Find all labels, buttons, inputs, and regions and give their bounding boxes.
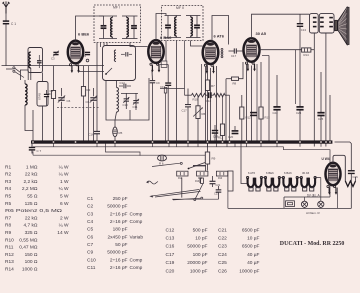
- resistor R1: [51, 91, 55, 99]
- potentiometer R6: [196, 106, 200, 119]
- wire L2 to R5: [115, 112, 117, 120]
- resistor R9: [205, 152, 209, 164]
- wire R13b: [260, 62, 262, 107]
- svg-text:R2: R2: [5, 172, 11, 178]
- wire V2 plate to MF II: [156, 14, 166, 41]
- svg-text:R5: R5: [5, 194, 11, 200]
- MF I primary: [99, 15, 117, 17]
- capacitor C24: [296, 106, 303, 108]
- wire C1 down: [5, 24, 7, 66]
- capacitor C14: [123, 84, 125, 89]
- capacitor C16b: [208, 92, 210, 98]
- resistor R7: [205, 80, 209, 91]
- svg-text:C24: C24: [218, 252, 227, 258]
- svg-text:6 BE6: 6 BE6: [266, 171, 274, 175]
- svg-text:6 BE6: 6 BE6: [78, 32, 90, 37]
- resistor R11: [220, 124, 224, 136]
- svg-text:125 Ω: 125 Ω: [25, 201, 38, 207]
- wire osc frame: [106, 78, 149, 120]
- coil L0: [29, 52, 31, 68]
- capacitor C22: [273, 106, 280, 108]
- svg-text:C19: C19: [166, 260, 175, 266]
- svg-text:2,2 MΩ: 2,2 MΩ: [22, 186, 38, 192]
- svg-text:R6: R6: [202, 112, 206, 116]
- wire R12: [241, 95, 243, 107]
- resistor R3: [81, 87, 85, 97]
- svg-text:2÷16 pF: 2÷16 pF: [110, 265, 128, 271]
- svg-text:R10: R10: [193, 98, 199, 102]
- capacitor C20: [232, 130, 239, 132]
- svg-text:Comp: Comp: [130, 265, 143, 271]
- svg-text:C12: C12: [166, 227, 175, 233]
- capacitor C23: [216, 189, 222, 191]
- resistor R12: [240, 107, 244, 119]
- svg-text:50000 pF: 50000 pF: [107, 204, 127, 210]
- coupling capacitor C18: [233, 48, 235, 53]
- variable capacitor C6a: [58, 97, 64, 99]
- svg-text:C3: C3: [51, 57, 55, 61]
- wire C13: [299, 14, 301, 23]
- svg-text:Comp: Comp: [130, 211, 143, 217]
- svg-text:R 6: R 6: [159, 161, 164, 165]
- svg-text:R1: R1: [5, 164, 11, 170]
- svg-text:6500 pF: 6500 pF: [242, 227, 260, 233]
- svg-text:C11: C11: [87, 265, 96, 271]
- tube V4 30A5: [244, 38, 260, 62]
- resistor R5 oval: [113, 127, 118, 137]
- resistor R11 horizontal: [214, 93, 226, 97]
- svg-text:5 W: 5 W: [60, 194, 69, 200]
- heater 2: [266, 178, 272, 188]
- fuse box: [286, 201, 295, 207]
- svg-text:Comp: Comp: [130, 219, 143, 225]
- svg-text:1 MΩ: 1 MΩ: [26, 164, 38, 170]
- tube V2 6BA6: [148, 40, 163, 63]
- svg-text:MF I: MF I: [113, 6, 120, 10]
- MF II secondary: [186, 15, 201, 17]
- svg-text:55 Ω: 55 Ω: [27, 194, 38, 200]
- svg-text:6 BA6: 6 BA6: [284, 171, 292, 175]
- pot oval: [158, 155, 167, 161]
- svg-text:Comp: Comp: [130, 257, 143, 263]
- wire R3: [83, 66, 85, 87]
- wire box leads: [42, 73, 44, 82]
- branch y152: [106, 144, 141, 156]
- svg-text:50000 pF: 50000 pF: [107, 250, 127, 256]
- svg-text:10 pF: 10 pF: [195, 236, 207, 242]
- tube V3 6AT6: [203, 41, 219, 64]
- capacitor C9: [150, 80, 155, 82]
- svg-text:250 pF: 250 pF: [113, 196, 128, 202]
- svg-text:DUCATI - Mod. RR 2250: DUCATI - Mod. RR 2250: [280, 240, 345, 247]
- wire V2 pins down: [158, 64, 169, 66]
- anode loop V3: [212, 16, 229, 45]
- svg-text:2 W: 2 W: [60, 215, 69, 221]
- svg-text:C21: C21: [218, 227, 227, 233]
- potentiometer R13: [201, 178, 204, 184]
- wire V1 pins down: [78, 71, 104, 73]
- output transformer primary: [310, 14, 319, 33]
- bottom rail: [228, 207, 351, 209]
- wire R6: [197, 95, 199, 106]
- svg-text:R14: R14: [304, 53, 310, 57]
- svg-text:40 µF: 40 µF: [247, 260, 259, 266]
- svg-text:R8: R8: [233, 82, 237, 86]
- svg-text:¼ W: ¼ W: [59, 186, 69, 192]
- svg-text:U W4: U W4: [322, 157, 330, 161]
- svg-text:R5: R5: [119, 131, 123, 135]
- wire boxes down: [181, 178, 183, 198]
- svg-text:50 pF: 50 pF: [115, 242, 127, 248]
- selector box 3: [216, 171, 227, 176]
- rail to R9: [207, 147, 209, 152]
- B+ rail thin: [33, 146, 284, 148]
- wire V5 top: [333, 155, 345, 181]
- variable capacitor C6b: [90, 97, 96, 99]
- transformer windings: [313, 17, 317, 19]
- selector box 4: [228, 171, 233, 191]
- svg-text:1000 pF: 1000 pF: [190, 268, 208, 274]
- svg-text:0,47 MΩ: 0,47 MΩ: [19, 245, 38, 251]
- capacitor C26: [348, 170, 355, 172]
- svg-text:C14: C14: [120, 81, 126, 85]
- svg-text:C13: C13: [301, 28, 307, 32]
- wire C6b: [93, 88, 95, 96]
- output transformer secondary: [319, 14, 334, 33]
- heater links: [261, 177, 265, 179]
- svg-text:R14: R14: [5, 267, 14, 273]
- selector box 1: [177, 171, 188, 176]
- svg-text:6500 pF: 6500 pF: [242, 244, 260, 250]
- svg-text:C7: C7: [87, 242, 93, 248]
- heater 1: [248, 178, 254, 188]
- svg-text:500 pF: 500 pF: [193, 227, 208, 233]
- svg-text:R9: R9: [5, 230, 11, 236]
- svg-text:2÷16 pF: 2÷16 pF: [110, 219, 128, 225]
- wire R14 right: [311, 49, 314, 51]
- contact circles V3: [221, 48, 223, 50]
- wire tone line: [172, 198, 219, 200]
- wire R7: [207, 64, 209, 80]
- svg-text:C6: C6: [67, 99, 71, 103]
- resistor R14: [302, 48, 311, 52]
- wire antenna to C1: [5, 14, 7, 21]
- svg-text:R13: R13: [5, 259, 14, 265]
- svg-text:R12: R12: [5, 252, 14, 258]
- svg-text:6 AT6: 6 AT6: [248, 171, 256, 175]
- svg-text:R7: R7: [5, 215, 11, 221]
- svg-text:C 7: C 7: [37, 149, 42, 153]
- wire bus tail: [335, 142, 352, 171]
- svg-text:C20: C20: [166, 268, 175, 274]
- wire lamp risers: [320, 178, 322, 202]
- capacitor C13: [297, 23, 303, 25]
- capacitor C21: [210, 180, 216, 182]
- svg-text:¼ W: ¼ W: [59, 164, 69, 170]
- wire V1 plate to MF I: [76, 16, 104, 41]
- wire V4 pins: [246, 65, 248, 141]
- switch lever 3: [173, 198, 201, 200]
- svg-text:C4: C4: [87, 219, 93, 225]
- svg-text:C23: C23: [218, 244, 227, 250]
- switch lever: [152, 163, 180, 166]
- svg-text:10000 pF: 10000 pF: [239, 268, 259, 274]
- wire C6a: [61, 88, 63, 96]
- svg-text:C24: C24: [296, 111, 302, 115]
- svg-text:C16: C16: [89, 133, 95, 137]
- svg-text:C17: C17: [166, 252, 175, 258]
- svg-text:R10: R10: [218, 178, 223, 180]
- wire R1: [53, 66, 55, 91]
- svg-text:10 µF: 10 µF: [247, 236, 259, 242]
- upper coil box: [28, 48, 43, 73]
- trimmer C5b: [85, 51, 90, 53]
- wire osc to coil L2: [116, 81, 118, 88]
- antenna: [5, 6, 7, 13]
- pointer arrows: [150, 190, 199, 197]
- coil L1 antenna: [25, 84, 27, 105]
- capacitor C23b: [250, 112, 257, 114]
- svg-text:22 kΩ: 22 kΩ: [25, 172, 38, 178]
- squiggle: [147, 181, 159, 184]
- trimmer C10: [124, 98, 129, 100]
- svg-text:Variab: Variab: [130, 234, 144, 240]
- svg-text:C2: C2: [87, 204, 93, 210]
- svg-text:R3: R3: [5, 179, 11, 185]
- capacitor C17a: [185, 104, 191, 106]
- svg-text:R7: R7: [211, 84, 215, 88]
- trimmer C11: [133, 100, 138, 102]
- svg-text:R4: R4: [5, 186, 11, 192]
- svg-text:180 pF: 180 pF: [113, 227, 128, 233]
- MF II primary: [165, 15, 182, 17]
- wire caps down: [276, 110, 278, 141]
- wire screen v1: [88, 66, 90, 141]
- wire V3 pins: [205, 67, 207, 141]
- bus understubs: [53, 144, 55, 147]
- junction polygon: [20, 70, 28, 80]
- svg-text:R13: R13: [195, 181, 200, 183]
- wire R5 to bus: [114, 137, 116, 141]
- svg-text:1 W: 1 W: [60, 179, 69, 185]
- svg-text:14 W: 14 W: [57, 230, 69, 236]
- wire R9 down: [207, 164, 209, 171]
- svg-text:C17: C17: [182, 109, 188, 113]
- capacitor C19: [212, 130, 218, 132]
- coil L2 oscillator: [117, 88, 119, 113]
- wire L1 to bus: [25, 105, 33, 131]
- resistor R13b: [259, 107, 263, 119]
- svg-text:2÷16 pF: 2÷16 pF: [110, 257, 128, 263]
- svg-text:6 AT6: 6 AT6: [214, 33, 225, 38]
- volume pot line: [33, 154, 205, 156]
- wire AVC y88: [160, 88, 185, 90]
- heater 3: [283, 178, 289, 188]
- svg-text:C6: C6: [87, 234, 93, 240]
- svg-text:C6: C6: [86, 100, 90, 104]
- wire V5 pins down: [328, 188, 330, 194]
- svg-text:R8: R8: [5, 223, 11, 229]
- capacitor C7: [31, 144, 33, 147]
- selector box 2: [197, 171, 208, 176]
- capacitor C1: [3, 20, 9, 22]
- svg-text:C1: C1: [87, 196, 93, 202]
- wire feedback: [260, 49, 302, 51]
- svg-text:6TA8: 6TA8: [38, 93, 42, 100]
- svg-text:C 1: C 1: [11, 22, 16, 26]
- svg-text:2÷16 pF: 2÷16 pF: [110, 211, 128, 217]
- svg-text:40 µF: 40 µF: [247, 252, 259, 258]
- svg-text:R6 Potenz 0,5 MΩ: R6 Potenz 0,5 MΩ: [5, 208, 63, 214]
- svg-text:MF II: MF II: [176, 6, 184, 10]
- svg-text:C16: C16: [206, 99, 212, 103]
- ground bus bar: [31, 140, 332, 143]
- svg-text:R10: R10: [5, 237, 14, 243]
- svg-text:C9: C9: [87, 250, 93, 256]
- switch lever 2: [189, 163, 206, 169]
- capacitor C15: [165, 82, 171, 84]
- svg-text:30 A5: 30 A5: [302, 171, 310, 175]
- pilot lamp rail: [284, 196, 330, 198]
- svg-text:325 Ω: 325 Ω: [25, 230, 38, 236]
- MF I secondary: [122, 15, 138, 17]
- svg-text:C17: C17: [231, 54, 237, 58]
- capacitor C16a: [94, 130, 100, 132]
- svg-text:C22: C22: [273, 111, 279, 115]
- IF transformer MF I box: [94, 5, 141, 43]
- wire switch leads: [6, 68, 13, 70]
- resistor R10 horizontal: [192, 93, 206, 97]
- svg-text:2x450 pF: 2x450 pF: [107, 234, 127, 240]
- svg-text:150 Ω: 150 Ω: [25, 252, 38, 258]
- IF transformer MF II box: [162, 6, 204, 41]
- svg-text:20000 pF: 20000 pF: [187, 260, 207, 266]
- svg-text:C13: C13: [166, 236, 175, 242]
- pilot lamp 1: [301, 201, 307, 207]
- rectifier tube V5: [326, 163, 341, 185]
- wire AVC rail: [2, 65, 105, 67]
- svg-text:C26: C26: [218, 268, 227, 274]
- svg-text:100 pF: 100 pF: [193, 252, 208, 258]
- svg-text:50000 pF: 50000 pF: [187, 244, 207, 250]
- wire C10: [125, 93, 127, 99]
- svg-text:C20: C20: [228, 135, 234, 139]
- svg-text:C11: C11: [133, 105, 138, 109]
- wires MF I down: [96, 43, 98, 132]
- svg-text:C3: C3: [87, 211, 93, 217]
- svg-text:C10: C10: [87, 257, 96, 263]
- svg-text:C25: C25: [318, 117, 324, 121]
- svg-text:R5: R5: [5, 201, 11, 207]
- wire C11: [135, 93, 137, 101]
- wire R11: [222, 136, 224, 141]
- svg-text:C19: C19: [213, 135, 219, 139]
- oscillator coil: [114, 50, 116, 62]
- trimmer C3: [53, 51, 58, 53]
- svg-text:R1: R1: [48, 92, 52, 96]
- svg-text:4,7 kΩ: 4,7 kΩ: [24, 223, 38, 229]
- svg-text:6 W: 6 W: [60, 201, 69, 207]
- svg-text:R13: R13: [265, 116, 271, 120]
- heater 4: [301, 178, 307, 188]
- heater rectifier: [345, 181, 355, 187]
- capacitor C25: [317, 112, 324, 114]
- capacitor C2 unit: [37, 60, 42, 62]
- capacitor C5 unit: [44, 93, 49, 95]
- coil unit box: [37, 82, 48, 107]
- svg-text:¼ W: ¼ W: [59, 172, 69, 178]
- switch contacts: [13, 67, 15, 69]
- oscillator contact: [106, 68, 112, 74]
- svg-text:100 Ω: 100 Ω: [25, 259, 38, 265]
- svg-text:0,55 MΩ: 0,55 MΩ: [19, 237, 38, 243]
- wire transformer down: [313, 33, 315, 147]
- speaker: [335, 20, 338, 30]
- tube V1 6BE6: [68, 41, 83, 64]
- svg-text:R11: R11: [5, 245, 14, 251]
- wire detector chain: [185, 94, 192, 96]
- wires MF II down: [165, 41, 167, 62]
- svg-text:30 A5: 30 A5: [256, 31, 267, 36]
- svg-text:Al filam. R: Al filam. R: [306, 211, 321, 215]
- oscillator box: [103, 46, 136, 81]
- resistor R8: [232, 77, 239, 80]
- svg-text:R9: R9: [212, 157, 216, 161]
- svg-text:2,2 kΩ: 2,2 kΩ: [24, 179, 38, 185]
- svg-text:C25: C25: [218, 260, 227, 266]
- svg-text:1000 Ω: 1000 Ω: [22, 267, 38, 273]
- svg-text:22 kΩ: 22 kΩ: [25, 215, 38, 221]
- pilot lamp 2: [318, 201, 324, 207]
- svg-text:C10: C10: [123, 103, 129, 107]
- svg-text:C16: C16: [166, 244, 175, 250]
- svg-text:C22: C22: [218, 236, 227, 242]
- resistor R4b: [164, 88, 167, 94]
- gang dashed link: [57, 106, 99, 108]
- svg-text:¼ W: ¼ W: [59, 223, 69, 229]
- wire V4 plate top: [252, 14, 310, 38]
- svg-text:C5: C5: [87, 227, 93, 233]
- heater chain feed: [241, 144, 248, 184]
